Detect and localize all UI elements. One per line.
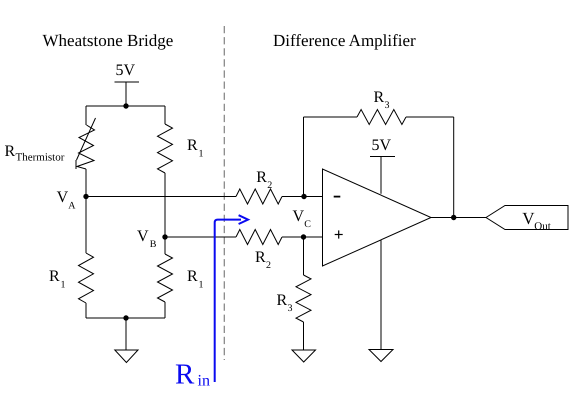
resistor R2 (lower, to non-inverting input) <box>236 230 282 245</box>
svg-text:R: R <box>187 137 198 154</box>
wire right R1 to node B <box>164 173 166 254</box>
wire top rail to thermistor <box>85 106 87 125</box>
wire thermistor to left R1 (through node A) <box>85 169 87 253</box>
svg-text:in: in <box>198 373 210 390</box>
wire R2 to node C <box>282 236 304 238</box>
wire inverting node to op-amp <box>304 196 323 198</box>
svg-text:3: 3 <box>288 303 293 314</box>
wire bridge bottom rail <box>86 317 165 319</box>
svg-text:1: 1 <box>199 149 204 160</box>
power symbol 5V (op-amp supply) <box>370 137 395 194</box>
wire feedback left riser <box>303 117 305 197</box>
resistor R1 (left lower bridge) <box>79 253 94 303</box>
wire node C to R3 ground leg <box>303 237 305 275</box>
svg-text:A: A <box>68 201 76 212</box>
svg-text:R: R <box>187 268 198 285</box>
svg-text:R: R <box>256 169 267 186</box>
svg-text:Difference Amplifier: Difference Amplifier <box>273 31 416 50</box>
svg-text:V: V <box>57 189 69 206</box>
junction node (bridge bottom) <box>123 315 128 320</box>
svg-text:C: C <box>304 219 311 230</box>
wire R2 to inverting node <box>282 196 304 198</box>
wire op-amp output <box>431 217 486 219</box>
label Rin (blue) <box>175 359 210 391</box>
wire feedback right riser <box>453 117 455 218</box>
Rin annotation (blue) <box>215 215 248 382</box>
wire node C to op-amp <box>304 236 323 238</box>
output flag VOut <box>486 206 568 233</box>
wire feedback top right <box>406 116 454 118</box>
node B junction <box>162 234 167 239</box>
svg-text:2: 2 <box>267 180 272 191</box>
label R2 (lower) <box>255 249 271 271</box>
ground (R3 leg) <box>292 322 316 362</box>
wire left R1 to bottom rail <box>85 303 87 318</box>
label R3 (to ground) <box>277 292 293 314</box>
resistor R1 (right lower bridge) <box>158 254 173 302</box>
svg-text:R: R <box>374 89 385 106</box>
svg-text:R: R <box>5 143 16 160</box>
svg-text:3: 3 <box>385 100 390 111</box>
svg-text:R: R <box>277 292 288 309</box>
label VB <box>137 228 157 250</box>
wire top rail to right R1 <box>164 106 166 124</box>
wire feedback top left <box>304 116 358 118</box>
label RThermistor <box>5 143 65 164</box>
svg-text:R: R <box>255 249 266 266</box>
wire right R1 to bottom rail <box>164 302 166 318</box>
ground (op-amp) <box>369 240 393 362</box>
label R1 (left lower) <box>49 268 66 291</box>
node A junction <box>83 194 88 199</box>
svg-text:1: 1 <box>199 280 204 291</box>
svg-text:Out: Out <box>534 221 551 233</box>
wire bridge top rail <box>86 105 165 107</box>
resistor R1 (right upper bridge) <box>158 124 173 173</box>
label R1 (right upper) <box>187 137 204 160</box>
op-amp U1 <box>323 169 432 266</box>
svg-text:R: R <box>49 268 60 285</box>
wire node A to R2 (inverting input path) <box>86 196 236 198</box>
thermistor RThermistor <box>76 118 96 169</box>
node C junction <box>301 234 306 239</box>
label R3 (feedback) <box>374 89 390 111</box>
resistor R3 (to ground) <box>296 275 311 322</box>
label VA <box>57 189 77 212</box>
inverting input junction <box>301 194 306 199</box>
svg-text:B: B <box>150 239 157 250</box>
svg-text:Wheatstone Bridge: Wheatstone Bridge <box>43 31 174 50</box>
power symbol 5V (bridge supply) <box>115 62 140 106</box>
svg-text:V: V <box>293 208 305 225</box>
wire node B to R2 (non-inverting input path) <box>165 236 236 238</box>
svg-text:R: R <box>175 359 195 391</box>
svg-text:Thermistor: Thermistor <box>16 152 65 164</box>
svg-text:V: V <box>137 228 149 245</box>
svg-text:5V: 5V <box>372 137 392 154</box>
section divider (dashed) <box>223 26 225 360</box>
label R1 (right lower) <box>187 268 204 291</box>
resistor R2 (upper, to inverting input) <box>236 189 282 204</box>
svg-text:5V: 5V <box>116 62 136 79</box>
resistor R3 (feedback) <box>357 110 406 125</box>
output junction <box>451 215 456 220</box>
label R2 (upper) <box>256 169 272 191</box>
junction node (bridge top) <box>123 103 128 108</box>
ground (bridge) <box>115 318 138 363</box>
svg-text:1: 1 <box>61 280 66 291</box>
svg-text:2: 2 <box>266 260 271 271</box>
label VC <box>293 208 312 230</box>
